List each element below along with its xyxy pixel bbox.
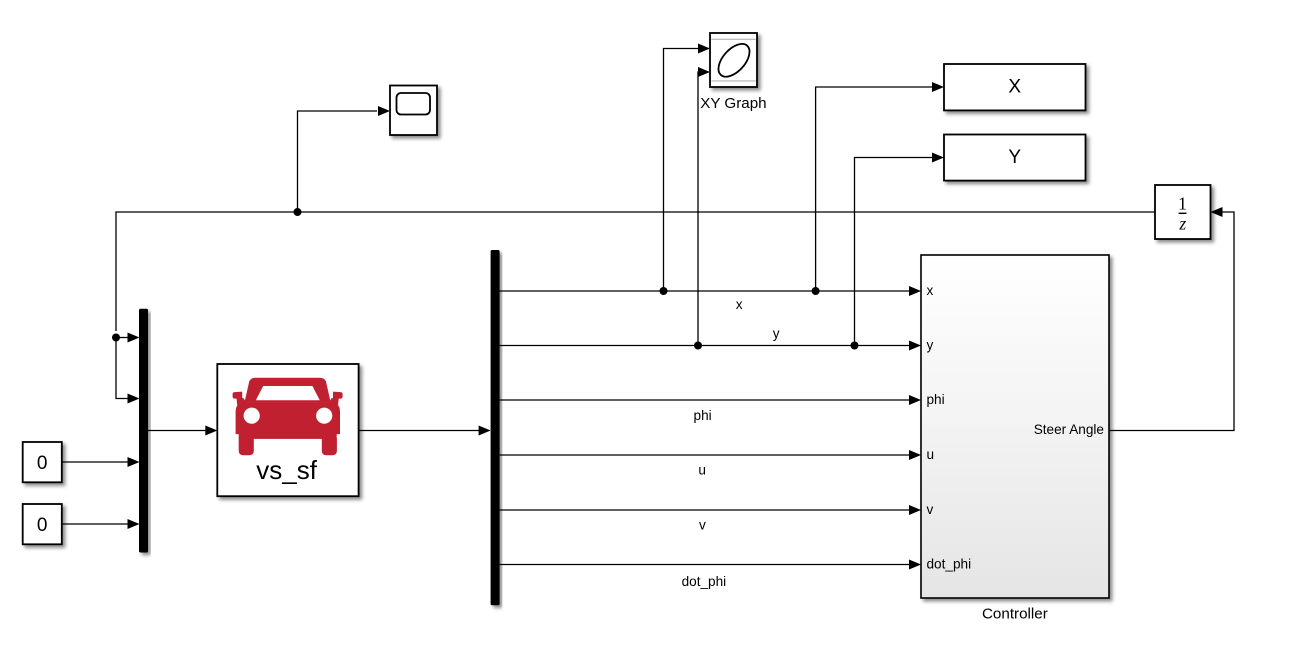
svg-text:0: 0: [37, 515, 48, 536]
XY Graph block U: scope with ellipse icon: [710, 33, 757, 87]
wire Steer Angle from Controller to 1/z input: [1109, 207, 1234, 431]
wire constant1 to mux input 3: [62, 457, 140, 467]
Controller subsystem block: [921, 255, 1109, 598]
wire branch x to X display: [816, 82, 944, 291]
svg-text:z: z: [1178, 213, 1186, 233]
svg-text:Y: Y: [1008, 147, 1021, 168]
svg-text:Controller: Controller: [982, 605, 1048, 622]
wire x: demux out 1 to Controller port x: [500, 286, 921, 296]
node junction at mux input 1: [112, 334, 120, 342]
constant block 0 (first): [23, 442, 62, 482]
svg-text:v: v: [699, 517, 706, 532]
label y: [773, 326, 780, 341]
wire vs_sf output to demux: [359, 426, 491, 436]
display block Y: [944, 135, 1086, 181]
wire u: demux out 4 to Controller port u: [500, 450, 921, 460]
constant block 0 (second): [23, 504, 62, 544]
node junction on y wire for Y display branch: [851, 342, 859, 350]
unit delay block 1/z: [1155, 185, 1211, 239]
mux block (vertical bar): [139, 309, 148, 553]
wire y: demux out 2 to Controller port y: [500, 341, 921, 351]
vs_sf subsystem block with car icon: [217, 364, 358, 496]
svg-text:phi: phi: [927, 392, 945, 407]
svg-text:y: y: [927, 338, 934, 353]
label dot_phi: [682, 574, 727, 589]
wire dot_phi: demux out 6 to Controller port dot_phi: [500, 560, 921, 570]
wire into mux input 1: [116, 333, 140, 343]
scope block: [390, 86, 437, 136]
svg-text:u: u: [927, 447, 935, 462]
node junction on x wire for X display branch: [812, 287, 820, 295]
wire mux output to vs_sf: [148, 426, 217, 436]
svg-text:phi: phi: [694, 408, 712, 423]
wire v: demux out 5 to Controller port v: [500, 505, 921, 515]
node junction on y wire for XY Graph branch: [694, 342, 702, 350]
svg-text:dot_phi: dot_phi: [682, 574, 727, 589]
wire phi: demux out 3 to Controller port phi: [500, 395, 921, 405]
svg-text:1: 1: [1178, 193, 1187, 213]
label x: [736, 297, 743, 312]
svg-text:vs_sf: vs_sf: [256, 455, 317, 485]
wire branch to Scope: [298, 106, 391, 212]
label XY Graph: [700, 95, 766, 112]
wire constant2 to mux input 4: [62, 519, 140, 529]
label u: [698, 463, 706, 478]
wire feedback horizontal from 1/z output to left drop: [116, 212, 1155, 331]
wire branch y to XY Graph input 2: [698, 67, 710, 346]
svg-text:x: x: [927, 283, 934, 298]
demux block (vertical bar): [491, 250, 500, 605]
label Controller: [982, 605, 1048, 622]
svg-text:dot_phi: dot_phi: [927, 556, 972, 571]
display block X: [944, 64, 1086, 110]
label v: [699, 517, 706, 532]
node junction on feedback wire above scope branch: [294, 208, 302, 216]
svg-text:0: 0: [37, 453, 48, 474]
svg-text:x: x: [736, 297, 743, 312]
wire into mux input 2: [116, 334, 140, 404]
svg-text:XY Graph: XY Graph: [700, 95, 766, 112]
wire branch y to Y display: [855, 153, 945, 346]
svg-text:y: y: [773, 326, 780, 341]
svg-text:u: u: [698, 463, 706, 478]
wire branch x to XY Graph input 1: [664, 44, 711, 292]
label phi: [694, 408, 712, 423]
svg-text:X: X: [1008, 77, 1021, 98]
node junction on x wire for XY Graph branch: [660, 287, 668, 295]
svg-text:v: v: [927, 502, 934, 517]
svg-text:Steer Angle: Steer Angle: [1034, 422, 1104, 437]
